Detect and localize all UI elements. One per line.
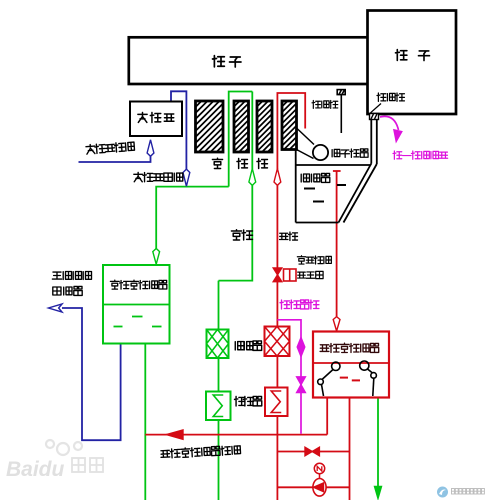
valve V1 on ladder rung (bowtie) bbox=[305, 447, 312, 456]
arrow hydrogen-side supply up into seal bbox=[274, 169, 281, 186]
pipe pump ladder rung with valve bbox=[277, 451, 349, 453]
leader line from baffle label to corner bbox=[371, 104, 382, 113]
float mechanism left in hydrogen tank bbox=[318, 362, 340, 396]
label return pipe line2 bbox=[53, 287, 61, 295]
arrow blue up into support bearing bbox=[147, 140, 154, 157]
oil baffle cap at rotor corner (leak point) bbox=[370, 114, 379, 120]
float funnel lines from seal to float bbox=[297, 128, 315, 145]
label hydrogen tank discharge bbox=[161, 445, 241, 458]
pump P1 circle with flow arrow bbox=[313, 479, 326, 497]
pipe hydrogen-side tank green outlet down bbox=[377, 398, 379, 498]
label defoam tank bbox=[301, 174, 309, 182]
label oil baffle right bbox=[377, 93, 386, 101]
label oil baffle left bbox=[312, 100, 320, 108]
label ring bbox=[257, 159, 267, 169]
valve magenta bowtie on modified line bbox=[297, 377, 306, 385]
pipe air-side supply upper run to seal bbox=[219, 182, 253, 281]
pipe pump ladder right vertical from hydrogen tank bottom bbox=[349, 398, 351, 500]
pipe hydrogen-side seal return bracket to defoam funnel bbox=[277, 93, 305, 169]
label pressure differential valve line2 bbox=[298, 272, 306, 278]
label oil cooler bbox=[235, 397, 245, 406]
defoam tank outline bbox=[296, 150, 377, 223]
label hydrogen-side seal oil tank title bbox=[320, 345, 329, 352]
label air-side seal oil tank title bbox=[110, 280, 119, 289]
air-side tank divider bbox=[103, 304, 170, 306]
pipe support bearing oil supply bbox=[79, 153, 151, 162]
pipe discharge header horizontal (hydrogen-side tank discharge) bbox=[145, 434, 327, 436]
label only leak point (magenta) bbox=[393, 151, 402, 159]
label seal bbox=[237, 159, 247, 169]
watermark China power logo bottom-right bbox=[437, 487, 448, 498]
arrow blue left to lube oil return pipe bbox=[49, 304, 63, 312]
label hydrogen side bbox=[280, 233, 288, 239]
float mechanism right in hydrogen tank bbox=[360, 361, 377, 396]
arrow red down into hydrogen-side seal oil tank bbox=[333, 317, 340, 331]
pipe hydrogen-side seal oil supply riser (red vertical) bbox=[276, 182, 278, 500]
air-side oil cooler (green) bbox=[206, 392, 231, 421]
pipe defoam tank drain down to hydrogen-side tank bbox=[336, 171, 338, 320]
pipe modified line branch from red supply bbox=[277, 320, 301, 434]
oil level pointer tick in defoam tank bbox=[333, 170, 341, 172]
label support bearing oil supply bbox=[86, 141, 135, 154]
watermark Baidu Baike bottom-left bbox=[46, 440, 82, 455]
valve on hydrogen-side supply (vertical bowtie) bbox=[273, 268, 282, 275]
label float baffle pipe bbox=[332, 149, 340, 156]
pipe air-side tank outlet down bbox=[144, 344, 146, 500]
pipe hydrogen tank drain to discharge header bbox=[326, 398, 328, 435]
air-side tank oil level dashes bbox=[114, 317, 162, 327]
air-side seal oil tank box bbox=[103, 265, 170, 344]
label support bearing oil return bbox=[134, 172, 143, 181]
arrow solid magenta flow down (kite) bbox=[297, 338, 305, 357]
pipe pump suction rung bbox=[277, 486, 349, 488]
air-side oil filter (green crosshatch) bbox=[207, 330, 229, 359]
arrow solid green at bottom of hydrogen tank outlet bbox=[375, 487, 382, 499]
pipe air-side return header to tank bbox=[156, 187, 229, 252]
arrow air-side supply up into seal bbox=[249, 169, 256, 186]
hydrogen-side oil filter (red crosshatch) bbox=[265, 327, 290, 357]
arrow blue down to return header bbox=[183, 169, 190, 186]
hydrogen-side oil cooler (red) bbox=[265, 388, 288, 417]
pipe air-side tank outlet to lube oil return bbox=[62, 308, 121, 440]
rotor end box (exciter end) bbox=[368, 11, 457, 115]
arrow solid red discharge flow direction left bbox=[167, 430, 184, 439]
rotor long body rectangle bbox=[129, 37, 368, 84]
svg-text:Baidu: Baidu bbox=[6, 458, 65, 481]
pipe air-side seal oil supply riser (green vertical through filter/cooler) bbox=[218, 281, 220, 500]
pipe support bearing oil return bbox=[171, 91, 186, 172]
pipe air-side seal return bracket over seal ring bbox=[229, 92, 253, 187]
label oil filter bbox=[235, 342, 244, 350]
label air side bbox=[231, 230, 241, 240]
label support bearing bbox=[138, 112, 147, 122]
label rotor (long body) bbox=[213, 56, 225, 67]
hydrogen-side seal oil tank box bbox=[313, 332, 389, 398]
vent pipe up to oil baffle at rotor corner bbox=[371, 120, 377, 165]
label high bbox=[212, 158, 222, 168]
support bearing box bbox=[130, 102, 182, 137]
label rotor (end box) bbox=[396, 50, 407, 61]
label modified piping (magenta) bbox=[280, 300, 290, 309]
leader curved magenta arrow to leak point bbox=[380, 116, 399, 130]
differential pressure valve body (split box) bbox=[284, 269, 297, 281]
label to lube oil line1 bbox=[52, 272, 61, 279]
float ball circle in defoam tank bbox=[313, 145, 328, 160]
gauge small circle above pump bbox=[319, 474, 321, 479]
label air-hydrogen oil line1 bbox=[297, 256, 305, 264]
arrow air-side return down into air-side tank bbox=[153, 248, 160, 264]
hydrogen tank oil level dashes (red) bbox=[340, 378, 360, 381]
oil baffle pin under rotor bbox=[337, 90, 345, 133]
hydrogen-side tank divider bbox=[313, 362, 389, 364]
oil level dashes in defoam tank bbox=[304, 185, 346, 202]
